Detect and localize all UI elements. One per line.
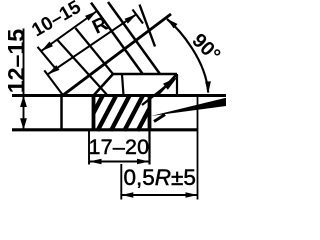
svg-text:10–15: 10–15 (28, 0, 85, 41)
svg-text:12–15: 12–15 (3, 29, 29, 94)
svg-text:17–20: 17–20 (89, 135, 150, 159)
svg-text:0,5R±5: 0,5R±5 (124, 165, 196, 190)
svg-text:90°: 90° (187, 29, 224, 66)
